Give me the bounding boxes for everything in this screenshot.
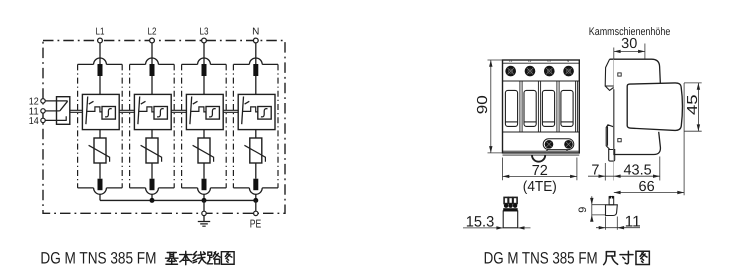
svg-text:30: 30 (621, 36, 637, 52)
svg-text:66: 66 (639, 179, 655, 195)
svg-text:(4TE): (4TE) (523, 179, 557, 195)
terminal screw 1 (505, 66, 516, 77)
equipment boundary (dash-dot frame) (43, 41, 285, 214)
dimension 11 (596, 217, 640, 230)
node L3 terminal (202, 38, 207, 43)
node terminal 12 (41, 99, 45, 103)
extension line 43.5 right (659, 157, 661, 181)
module front plate 1 (505, 90, 517, 126)
SPD module 2 (L2) (130, 58, 175, 200)
svg-text:15.3: 15.3 (466, 213, 495, 230)
svg-text:L1: L1 (509, 59, 513, 63)
dimension 66 line (614, 192, 684, 194)
pin 2 (509, 197, 513, 203)
SPD module 1 (L1) (78, 58, 123, 200)
wire L1 drop (99, 43, 101, 64)
junction module 3 to bus (202, 198, 207, 203)
node PE terminal (254, 211, 258, 215)
screw marker lower (618, 139, 621, 142)
dimension 90 (488, 60, 503, 153)
svg-text:DG M TNS 385 FM: DG M TNS 385 FM (484, 249, 598, 267)
detail: FM terminal side (9 x 11) (606, 196, 618, 216)
svg-text:N: N (252, 27, 259, 38)
svg-text:72: 72 (532, 163, 548, 179)
module front plate 3 (542, 90, 554, 126)
contact arm 11-12 (60, 101, 68, 111)
SPD module 3 (L3) (182, 58, 227, 200)
plug-in module side profile (627, 83, 682, 131)
front view line under terminals (503, 80, 580, 82)
top DIN clip (605, 59, 613, 90)
svg-text:L2: L2 (148, 27, 157, 38)
ground (198, 222, 210, 227)
FM terminal screw left (545, 140, 554, 149)
side view (605, 59, 682, 161)
DIN rail release notch (532, 155, 545, 162)
front view top edge line (503, 62, 580, 64)
module slot dividers (520, 81, 578, 132)
svg-text:11: 11 (625, 213, 641, 230)
svg-text:45: 45 (685, 95, 701, 116)
dimension 7 / 43.5 line (588, 175, 660, 177)
dimension 9 (591, 196, 593, 221)
node N terminal (253, 38, 258, 43)
terminal screw 4 (563, 66, 574, 77)
junction module 4 to bus (253, 198, 258, 203)
DIN rail lower edge line (503, 154, 580, 156)
svg-text:7: 7 (591, 162, 599, 178)
dimension 15.3 (463, 227, 531, 229)
wire L3 drop (203, 43, 205, 64)
terminal screw 2 (525, 66, 536, 77)
mechanical linkage module 1 to module 2 (119, 110, 134, 112)
FM terminal screw right (564, 140, 573, 149)
SPD module 4 (N) (233, 58, 278, 200)
node terminal 11 (41, 109, 45, 113)
svg-text:DG M TNS 385 FM: DG M TNS 385 FM (40, 249, 156, 267)
node terminal 14 (41, 118, 45, 122)
mechanical linkage module 2 to module 3 (171, 110, 186, 112)
svg-text:L3: L3 (548, 59, 552, 63)
terminal screw 3 (544, 66, 555, 77)
wire terminal 12 (45, 100, 67, 102)
connector top (609, 197, 614, 205)
bottom inner line (503, 150, 580, 152)
FM terminal surround (543, 139, 574, 150)
svg-text:L1: L1 (96, 27, 105, 38)
bottom DIN clip (606, 125, 613, 150)
dimension 45 (684, 83, 702, 131)
bottom clip foot (609, 150, 615, 162)
module front plate 2 (524, 90, 536, 126)
caption right chinese: 尺寸图 (604, 252, 618, 265)
wire N drop (255, 43, 257, 64)
wire bus to ground terminal (203, 200, 205, 211)
junction module 2 to bus (150, 198, 155, 203)
side view base profile (610, 59, 661, 84)
svg-text:9: 9 (577, 207, 589, 213)
module front plate 4 (561, 90, 573, 126)
front view body (503, 60, 580, 153)
wire terminal 14 with contact hook (45, 116, 66, 120)
screw marker upper (618, 73, 621, 76)
mechanical linkage module 3 to module 4 (223, 110, 238, 112)
pin 1 (504, 197, 508, 203)
svg-text:L3: L3 (200, 27, 209, 38)
pin 3 (513, 197, 517, 203)
mechanical linkage FM contact to module 1 (70, 110, 83, 112)
node L2 terminal (150, 38, 155, 43)
svg-text:L2: L2 (528, 59, 532, 63)
dimension 30 (614, 44, 645, 59)
extension line left edge (shared 30/43.5/66) (613, 59, 615, 181)
detail: FM plug terminal front (15.3) (503, 197, 518, 227)
svg-text:N: N (567, 59, 569, 63)
wire terminal 11 (45, 110, 60, 112)
node L1 terminal (98, 38, 103, 43)
dimension 72 (503, 158, 577, 181)
svg-text:43.5: 43.5 (623, 163, 651, 179)
wire L2 drop (151, 43, 153, 64)
wire terminal to ground (203, 216, 205, 222)
svg-text:PE: PE (250, 218, 262, 230)
svg-text:14: 14 (29, 116, 39, 127)
extension line 66 right (module front) (683, 83, 685, 195)
module area bottom line (503, 131, 580, 133)
caption left chinese: 基本线路图 (166, 252, 178, 264)
svg-text:90: 90 (475, 95, 491, 114)
node ground pass-through terminal (202, 211, 206, 215)
side view base lower outline (614, 89, 661, 154)
tiny print marks top of front view (509, 59, 569, 63)
wire bus to PE terminal (255, 200, 257, 211)
terminal body side (606, 205, 618, 216)
extension line clip face for 7 (604, 163, 606, 181)
PE bus wire (100, 199, 256, 201)
tiny print marks near FM terminals (546, 150, 548, 151)
FM remote signalling changeover contact box (57, 97, 70, 125)
